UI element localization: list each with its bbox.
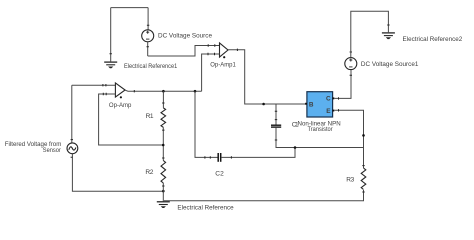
tick marks DC source1 leads bbox=[350, 52, 352, 75]
tick mark op-amp1 output bbox=[236, 49, 238, 51]
capacitor C1 bbox=[271, 125, 281, 127]
junction on base wire bbox=[262, 103, 265, 106]
wire: DC source top lead bbox=[147, 8, 149, 30]
AC source Filtered Voltage from Sensor bbox=[67, 143, 78, 154]
tick marks R3 bbox=[362, 166, 364, 192]
wire: op-amp1 output to transistor base bbox=[228, 50, 307, 104]
tick marks AC source leads bbox=[71, 140, 73, 158]
tick marks op-amp1 minus input bbox=[208, 53, 215, 55]
wire: top-left loop horizontal bbox=[111, 7, 148, 9]
svg-text:DC Voltage Source1: DC Voltage Source1 bbox=[361, 61, 419, 68]
junction node op-amp output / C2 branch bbox=[194, 90, 197, 93]
svg-text:Transistor: Transistor bbox=[308, 126, 334, 133]
resistor R3 bbox=[361, 168, 366, 190]
tick mark collector bbox=[338, 97, 340, 99]
wire: C2 left branch bbox=[195, 91, 218, 157]
DC voltage source (left) bbox=[142, 30, 154, 42]
wire: C1 top lead bbox=[275, 104, 277, 125]
wire: op-amp plus input horizontal bbox=[72, 84, 116, 86]
junction node ground bbox=[162, 190, 165, 193]
wire: bottom bus to R3 bbox=[164, 190, 364, 201]
svg-text:R1: R1 bbox=[146, 113, 154, 120]
capacitor C2 bbox=[218, 153, 221, 162]
tick marks R1 bbox=[162, 103, 164, 130]
wire: op-amp minus input with feedback elbow bbox=[99, 94, 164, 145]
ground Electrical Reference2 bbox=[382, 33, 395, 39]
wire: op-amp1 minus input bbox=[202, 54, 220, 91]
tick marks R2 bbox=[162, 158, 164, 186]
wire: DC source1 top loop to ground2 bbox=[351, 11, 389, 57]
wire: to op-amp1 plus bbox=[148, 46, 220, 57]
svg-text:DC Voltage Source: DC Voltage Source bbox=[158, 32, 212, 39]
tick marks op-amp minus input bbox=[103, 93, 106, 95]
wire: op-amp output bus bbox=[125, 90, 202, 91]
svg-text:R3: R3 bbox=[346, 176, 354, 183]
wire: R2 bottom to ground bbox=[162, 191, 164, 201]
op-amp U1 Op-Amp bbox=[115, 83, 125, 99]
transistor Q1 Non-linear NPN (masked block) bbox=[305, 92, 334, 117]
svg-text:E: E bbox=[326, 108, 331, 115]
junction node C1/C2 bbox=[294, 146, 297, 149]
resistor R1 bbox=[161, 108, 166, 128]
DC voltage source1 (right) bbox=[345, 58, 357, 70]
tick marks C2 left bbox=[205, 156, 210, 158]
tick mark op-amp output bbox=[133, 90, 135, 92]
svg-text:Op-Amp1: Op-Amp1 bbox=[210, 61, 236, 68]
wire: ground1 riser bbox=[110, 8, 112, 62]
tick marks DC source top lead / ground1 lead bbox=[110, 25, 150, 54]
resistor R2 bbox=[161, 161, 166, 184]
svg-text:B: B bbox=[309, 102, 314, 109]
svg-text:Electrical Reference: Electrical Reference bbox=[177, 205, 234, 212]
svg-text:Electrical Reference1: Electrical Reference1 bbox=[124, 63, 177, 70]
tick marks op-amp1 plus input bbox=[208, 44, 215, 46]
tick mark above ground2 bbox=[387, 24, 389, 26]
svg-text:Electrical Reference2: Electrical Reference2 bbox=[403, 36, 463, 43]
svg-text:C2: C2 bbox=[215, 170, 224, 177]
junction node on emitter column bbox=[362, 134, 365, 137]
tick mark emitter bbox=[338, 109, 340, 111]
ground Electrical Reference (bottom) bbox=[157, 202, 170, 208]
tick mark C2 right bbox=[230, 156, 232, 158]
wire: op-amp plus input riser from sensor bbox=[71, 85, 73, 143]
wire: R1 vertical column bbox=[162, 91, 164, 191]
svg-text:C: C bbox=[326, 96, 331, 103]
op-amp U2 Op-Amp1 bbox=[220, 43, 229, 58]
wire: AC source bottom to ground bbox=[72, 154, 163, 192]
junction node op-amp output / R1 top bbox=[162, 90, 165, 93]
wire: DC source bottom lead bbox=[147, 42, 149, 56]
wire: C1 bottom lead and node to E column bbox=[276, 128, 364, 148]
wire: C2 right to node bbox=[221, 148, 295, 158]
ground Electrical Reference1 bbox=[104, 62, 117, 68]
tick marks C1 top lead bbox=[275, 111, 277, 119]
tick mark C1 bottom lead bbox=[275, 139, 277, 141]
svg-text:R2: R2 bbox=[145, 169, 153, 176]
tick marks op-amp plus input bbox=[103, 84, 106, 86]
wire: emitter to R3 column bbox=[334, 110, 363, 168]
svg-text:Sensor: Sensor bbox=[43, 147, 62, 154]
svg-text:Op-Amp: Op-Amp bbox=[109, 102, 132, 109]
junction node R1/R2/feedback bbox=[162, 144, 165, 147]
wire: collector to DC source1 bbox=[334, 70, 351, 99]
